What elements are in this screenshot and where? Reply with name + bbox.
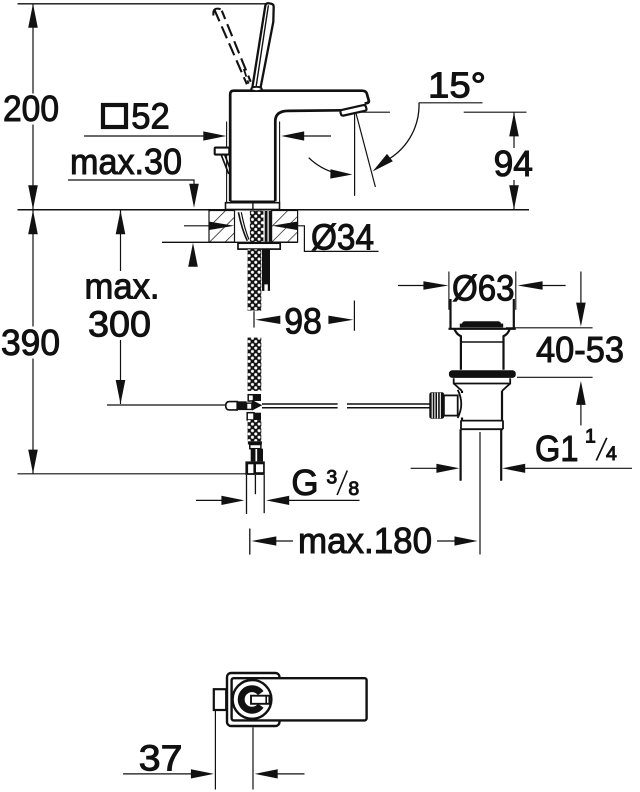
svg-text:G: G — [291, 462, 318, 503]
linkage joint white square — [247, 403, 252, 409]
dimension diam34 left line with arrow — [184, 225, 211, 227]
dimension 37 extension line right — [252, 727, 254, 789]
lever inner edge line — [256, 5, 268, 86]
lever handle (solid) — [252, 3, 273, 87]
dimension 52 line right with arrow — [303, 135, 331, 137]
top view spout rectangle — [232, 678, 367, 720]
svg-text:40-53: 40-53 — [536, 329, 624, 370]
dimension max.30 down arrow — [189, 184, 199, 208]
dimension 390 top arrow — [28, 210, 38, 234]
swivel arc left — [309, 158, 336, 174]
15 deg label underline — [419, 102, 483, 104]
drain plug cap (black) — [462, 321, 501, 327]
base plate — [226, 203, 280, 210]
faucet body and spout outline — [230, 91, 369, 202]
GROHE logo G ring — [238, 685, 267, 714]
svg-text:G1: G1 — [535, 428, 579, 469]
drain neck ring line — [461, 341, 504, 343]
dimension diam63 extension lines — [448, 272, 450, 310]
dimension G1 1/4 left line with arrow — [411, 467, 439, 469]
linkage joint black square — [238, 401, 247, 410]
supply hose braid lower segment — [248, 420, 262, 441]
dimension 200 vertical line — [32, 4, 34, 210]
svg-text:max.180: max.180 — [298, 520, 432, 561]
dimension 98 extension line right — [353, 301, 355, 331]
G3/8 fitting body — [251, 449, 263, 462]
max.300 bottom reference line at rod level — [107, 404, 226, 406]
dimension 390 bottom arrow — [28, 450, 38, 474]
spout aerator (tilted outlet) — [340, 105, 366, 116]
drain coupling ring — [461, 420, 503, 429]
drain neck taper — [454, 329, 510, 370]
counter section hatched block left — [209, 211, 235, 243]
dimension G1 1/4 right arrow and line — [502, 464, 525, 473]
svg-text:max.: max. — [85, 266, 160, 307]
dimension 40-53 top arrow line — [580, 272, 582, 305]
dimension diam34 right arrow and leader — [272, 222, 297, 230]
svg-text:52: 52 — [131, 96, 170, 137]
GROHE logo bar end divider — [265, 696, 267, 704]
threaded shank braid in hole — [250, 211, 264, 242]
dimension 37 line with left arrow — [123, 773, 192, 775]
faucet body white fill — [230, 92, 369, 201]
lever pivot cap — [251, 87, 262, 91]
GROHE logo ring opening wedge — [252, 684, 274, 716]
pop-up rod below washer — [262, 249, 270, 291]
svg-text:1: 1 — [585, 426, 596, 448]
dimension max.300 top arrow — [116, 210, 126, 234]
bottom reference line (hose end level) — [18, 473, 246, 475]
dimension 98 center tick — [253, 311, 255, 327]
top reference line — [18, 3, 268, 5]
drain O-ring seal (black) — [449, 370, 516, 378]
svg-text:94: 94 — [494, 143, 533, 184]
svg-text:Ø63: Ø63 — [452, 268, 515, 309]
svg-text:4: 4 — [606, 443, 617, 465]
dimension 52 extension line right — [279, 122, 281, 203]
svg-text:Ø34: Ø34 — [311, 217, 374, 258]
horizontal pop-up linkage rod left of gap — [262, 404, 338, 408]
spout underside line and inner corner — [275, 110, 341, 201]
top view faucet body square — [227, 673, 280, 726]
drain joint arc — [458, 390, 462, 418]
dimension 200 top arrow — [28, 4, 38, 28]
dimension 94 top arrow — [509, 112, 519, 136]
outlet level short line — [357, 111, 390, 113]
dimension 200 bottom arrow — [28, 185, 38, 209]
dimension max.180 left arrow — [251, 536, 276, 545]
dimension G3/8 left line with arrow — [196, 499, 224, 501]
pop-up knob at rear of body — [215, 148, 230, 155]
svg-text:3: 3 — [326, 467, 337, 489]
dimension max.300 bottom arrow — [116, 380, 126, 404]
body bottom line — [230, 200, 275, 202]
supply hose braid middle segment — [248, 338, 262, 391]
dimension 52 extension line left — [226, 122, 228, 203]
dimension 40-53 bottom arrow line — [576, 381, 586, 405]
linkage joint wedge — [252, 400, 262, 411]
svg-text:98: 98 — [284, 301, 322, 342]
dimension max.180 right arrow — [437, 540, 457, 542]
svg-text:8: 8 — [348, 478, 359, 500]
mounting washer below counter — [238, 243, 280, 249]
dimension 40-53 upper tick — [506, 327, 593, 329]
svg-text:37: 37 — [139, 738, 183, 779]
dimension max.300 vertical line — [120, 210, 122, 404]
braid end collar below joint — [247, 413, 254, 420]
swivel arc right arrowhead — [373, 154, 393, 172]
dimension G3/8 right arrow and underline — [266, 496, 289, 505]
pop-up rod hook notch — [264, 284, 267, 291]
drain flange below O-ring — [454, 378, 511, 391]
supply hose braid upper segment — [248, 249, 262, 310]
15 deg slanted line — [356, 114, 375, 187]
dimension 40-53 lower tick — [517, 376, 593, 378]
shank seal cone curves in hole — [238, 212, 247, 241]
countertop surface line — [18, 209, 530, 211]
drain centerline — [479, 432, 481, 555]
dimension diam63 right arrow and line — [518, 281, 543, 289]
svg-text:15°: 15° — [428, 65, 486, 106]
dimension 390 vertical line — [32, 210, 34, 473]
counter bottom line — [162, 241, 298, 243]
svg-text:max.30: max.30 — [70, 141, 182, 182]
square symbol of dimension 52 — [103, 105, 126, 127]
supply hose center stub — [254, 475, 256, 494]
dimension 98 left arrow — [255, 316, 280, 324]
lever dashed alternate position line 1 — [214, 9, 247, 84]
lever dashed tip cap — [213, 9, 220, 16]
svg-text:390: 390 — [1, 322, 60, 363]
dimension 37 right arrow — [255, 769, 278, 778]
dimension 94 vertical line — [513, 112, 515, 209]
supply hose end outline lines — [246, 475, 248, 514]
dimension 98 right arrow — [328, 316, 353, 324]
drain lever connector — [444, 395, 458, 415]
GROHE logo bar — [251, 696, 269, 704]
15 deg vertical reference line — [354, 114, 356, 196]
linkage joint nipple — [226, 402, 238, 410]
G3/8 fitting white band — [250, 445, 261, 449]
dimension 94 top tick line — [464, 111, 527, 113]
dimension max.180 left tick — [249, 529, 251, 555]
lever dashed alternate position line 2 — [222, 11, 251, 82]
dimension max.30 up arrow (below counter) — [188, 243, 198, 267]
drain plug body — [449, 299, 516, 329]
horizontal pop-up linkage rod right of gap — [347, 404, 430, 408]
drain valve body — [462, 391, 502, 421]
drain tailpipe — [461, 429, 502, 481]
dimension 37 extension line left — [214, 710, 216, 789]
pop-up vertical rod in hole — [265, 211, 268, 242]
top view pop-up knob tab — [214, 689, 226, 710]
dimension 52 line left with arrow — [84, 135, 205, 137]
base plate middle division — [252, 203, 254, 210]
GROHE logo outer circle — [233, 680, 272, 719]
braid end collar above joint — [248, 395, 253, 401]
swivel arc left arrowhead — [330, 169, 352, 178]
swivel arc right — [389, 103, 419, 159]
G3/8 fitting upper black band — [248, 441, 262, 444]
drain lever knurled knob — [429, 392, 444, 418]
lever dashed inner short line — [244, 69, 249, 84]
dimension diam63 left line with arrow — [398, 285, 426, 287]
svg-text:300: 300 — [88, 304, 151, 345]
pop-up rod entering body — [221, 155, 228, 174]
G3/8 hex nut — [245, 461, 264, 475]
svg-text:200: 200 — [3, 88, 59, 129]
dimension max.30 leader line — [68, 180, 194, 186]
dimension 94 bottom arrow — [509, 185, 519, 209]
counter section hatched block right — [272, 211, 298, 243]
